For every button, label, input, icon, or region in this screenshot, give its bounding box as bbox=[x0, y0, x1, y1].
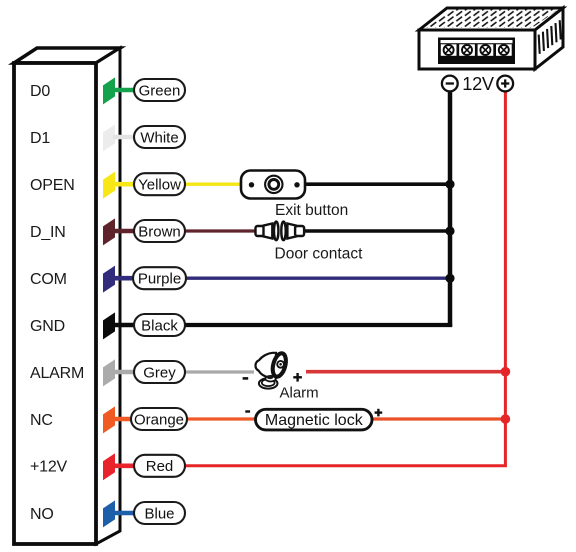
svg-text:GND: GND bbox=[30, 318, 65, 335]
svg-text:Purple: Purple bbox=[138, 271, 181, 288]
svg-text:Black: Black bbox=[141, 317, 178, 334]
svg-text:Brown: Brown bbox=[138, 223, 181, 240]
svg-text:D_IN: D_IN bbox=[30, 224, 66, 241]
svg-text:Exit button: Exit button bbox=[275, 202, 348, 219]
svg-text:D1: D1 bbox=[30, 130, 50, 147]
svg-text:Orange: Orange bbox=[134, 411, 184, 428]
svg-text:+12V: +12V bbox=[30, 459, 68, 476]
svg-text:ALARM: ALARM bbox=[30, 365, 84, 382]
svg-text:Magnetic lock: Magnetic lock bbox=[265, 412, 364, 429]
svg-text:Blue: Blue bbox=[144, 505, 174, 522]
svg-text:Red: Red bbox=[146, 458, 174, 475]
svg-text:White: White bbox=[140, 129, 178, 146]
svg-text:OPEN: OPEN bbox=[30, 177, 75, 194]
svg-text:D0: D0 bbox=[30, 83, 50, 100]
svg-text:Grey: Grey bbox=[143, 364, 176, 381]
svg-text:Alarm: Alarm bbox=[280, 385, 319, 402]
svg-text:NO: NO bbox=[30, 506, 54, 523]
svg-text:COM: COM bbox=[30, 271, 67, 288]
svg-text:Door contact: Door contact bbox=[275, 245, 364, 262]
svg-text:NC: NC bbox=[30, 412, 53, 429]
svg-text:12V: 12V bbox=[462, 74, 495, 94]
svg-text:Green: Green bbox=[139, 82, 181, 99]
svg-text:Yellow: Yellow bbox=[138, 177, 181, 194]
